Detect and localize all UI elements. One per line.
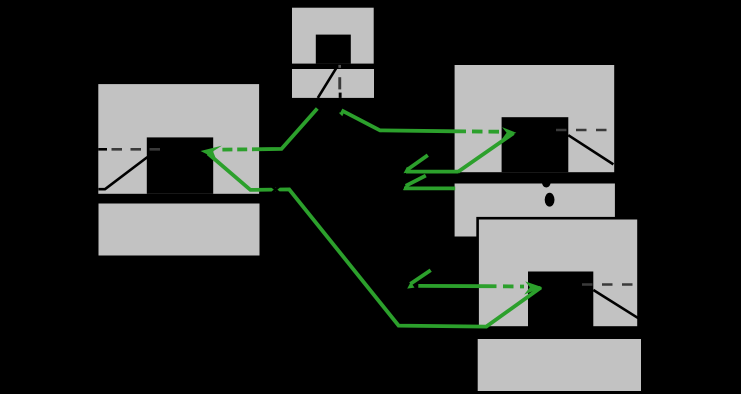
- left block fermi level dashes: [112, 148, 164, 151]
- right-lower block upper band with border: [478, 218, 639, 327]
- top-center block notch: [316, 35, 351, 64]
- zigzag3 arrowhead: [407, 282, 414, 289]
- zigzag2 arrowhead: [403, 184, 410, 191]
- left block tilted band edge: [99, 157, 148, 189]
- left block well: [147, 137, 213, 193]
- green path from left well bend up to top-center block: [262, 109, 317, 150]
- right-upper fermi level dashes: [556, 129, 613, 132]
- green arrowhead into right-lower well: [524, 281, 542, 294]
- blocked transition x mark: [271, 186, 281, 194]
- right-lower tilted band edge: [593, 290, 638, 318]
- zigzag1 stroke: [408, 155, 428, 169]
- small green arrowhead at top of right V: [339, 111, 345, 117]
- zigzag1 arrowhead: [404, 167, 411, 174]
- right-upper tilted band edge: [568, 135, 613, 164]
- top-center vertical dash upper: [338, 65, 341, 68]
- left block upper band: [98, 84, 259, 194]
- right-lower block lower slab: [478, 339, 641, 391]
- top-center block upper band: [292, 8, 374, 64]
- top-center block lower slab: [292, 69, 374, 98]
- left block fermi level solid stub: [98, 148, 107, 151]
- zigzag2 horizontal: [404, 186, 455, 190]
- zigzag3 stroke: [410, 270, 430, 284]
- right-upper block upper band: [455, 65, 615, 172]
- green dashed entry into right-upper well: [456, 129, 501, 133]
- green dashed entry into left well: [222, 147, 262, 151]
- top-center vertical dash lower: [339, 93, 342, 98]
- top-center vertical dash middle: [338, 77, 341, 89]
- zigzag1 horizontal: [406, 170, 459, 174]
- right-lower fermi level dashes: [582, 283, 637, 286]
- right-upper block lower slab: [455, 184, 615, 237]
- green dashed entry into right-lower well: [486, 284, 524, 288]
- green escape path from left well to right-lower block: [208, 154, 541, 327]
- left block lower slab: [99, 204, 260, 256]
- green relaxation line into right-upper well: [458, 133, 514, 172]
- electron at slab edge: [542, 177, 551, 187]
- electron in slab: [545, 193, 555, 207]
- top-center tilted band edge: [318, 66, 338, 98]
- green arrowhead into right-upper well: [501, 127, 516, 140]
- green arrowhead into left well: [201, 146, 223, 159]
- green path from top-center block to right-upper well: [342, 110, 456, 131]
- right-upper block well: [502, 117, 569, 172]
- green horizontal arrow toward right-lower well: [418, 284, 486, 288]
- zigzag2 stroke: [406, 176, 426, 186]
- right-lower block well: [528, 272, 593, 328]
